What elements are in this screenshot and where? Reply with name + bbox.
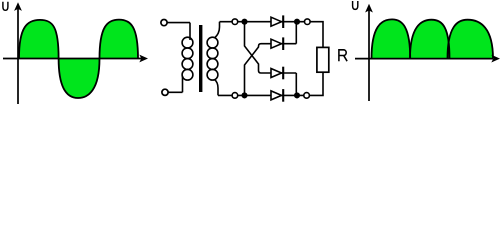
secondary terminal top xyxy=(232,19,238,25)
left t axis (horizontal) xyxy=(3,55,148,63)
left U label xyxy=(3,2,8,11)
diode D3 xyxy=(271,67,296,80)
output terminal top xyxy=(305,19,311,25)
hump 3 outline xyxy=(448,20,494,59)
primary terminal top xyxy=(161,20,190,26)
hump 1 outline xyxy=(372,19,411,58)
node A (top junction) xyxy=(241,19,247,25)
primary bottom lead xyxy=(182,76,184,92)
right U axis (vertical) xyxy=(365,4,373,101)
wire node C to resistor xyxy=(297,22,323,48)
right t axis (horizontal) xyxy=(355,55,500,63)
diode D1 xyxy=(271,15,283,28)
label R xyxy=(339,50,347,61)
node C (top output junction) xyxy=(294,19,300,25)
output terminal bottom xyxy=(304,93,310,99)
primary terminal bottom xyxy=(162,89,183,95)
resistor R xyxy=(317,47,329,72)
primary top lead xyxy=(189,23,191,40)
sine waveform green fill xyxy=(19,20,138,98)
wire node D to resistor xyxy=(297,72,323,95)
left U axis (vertical) xyxy=(14,2,22,104)
primary winding L1 xyxy=(182,37,193,80)
secondary winding L2 xyxy=(207,37,218,80)
secondary bottom lead xyxy=(215,80,219,96)
sine waveform outline xyxy=(19,20,138,98)
secondary terminal bottom xyxy=(232,93,238,99)
rectified hump 3 fill xyxy=(448,20,494,59)
rectified hump 2 fill xyxy=(410,20,450,59)
wire D2 cathode up to node C xyxy=(295,22,297,44)
diode D4 xyxy=(271,89,283,102)
right U label xyxy=(353,1,358,9)
wire D3 cathode down to node D xyxy=(295,73,297,95)
wire A to D3 (cross down) xyxy=(245,22,272,73)
diode D2 xyxy=(271,37,296,50)
secondary top lead xyxy=(215,22,220,38)
top rail wire xyxy=(220,21,298,23)
bottom rail wire xyxy=(218,94,297,96)
transformer core xyxy=(199,25,202,92)
hump 2 outline xyxy=(410,20,450,59)
rectified hump 1 fill xyxy=(372,19,411,58)
node B (bottom junction) xyxy=(241,92,247,98)
node D (bottom output junction) xyxy=(294,92,300,98)
wire B to D2 (cross up) xyxy=(245,44,272,96)
